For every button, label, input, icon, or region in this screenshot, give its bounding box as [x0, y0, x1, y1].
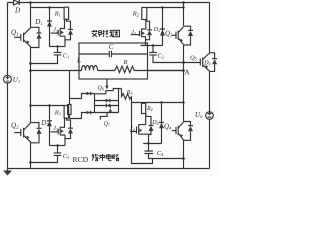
- svg-text:R: R: [123, 59, 128, 66]
- svg-text:D0: D0: [203, 61, 210, 67]
- svg-text:J1: J1: [53, 27, 58, 33]
- svg-text:J4: J4: [130, 126, 135, 132]
- svg-text:R5: R5: [126, 90, 133, 96]
- svg-text:R4: R4: [146, 106, 153, 112]
- svg-text:J2: J2: [131, 30, 136, 36]
- svg-text:C: C: [109, 43, 114, 51]
- svg-text:A: A: [185, 69, 190, 77]
- svg-text:L: L: [76, 57, 81, 65]
- svg-text:J3: J3: [53, 126, 58, 132]
- svg-text:Q7: Q7: [104, 121, 111, 127]
- svg-text:RCD: RCD: [73, 155, 89, 164]
- svg-text:D4: D4: [151, 120, 158, 126]
- svg-text:Q6: Q6: [98, 85, 104, 91]
- svg-text:D: D: [14, 7, 20, 15]
